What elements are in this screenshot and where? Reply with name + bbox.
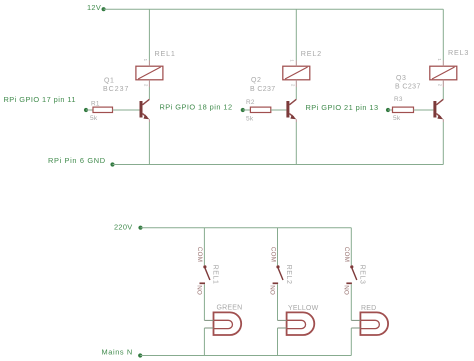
pin label NO (switch REL3) bbox=[343, 285, 350, 295]
svg-text:RED: RED bbox=[361, 305, 376, 312]
label GREEN bbox=[217, 305, 243, 312]
wire GND rail bbox=[113, 164, 444, 166]
net label RPi GPIO 18 pin 12 bbox=[160, 102, 233, 111]
wire 12V rail to REL2 coil bbox=[295, 9, 297, 60]
svg-text:B C237: B C237 bbox=[395, 83, 421, 90]
net label RPi Pin 6 GND bbox=[48, 156, 106, 165]
net label 220V bbox=[114, 222, 132, 231]
value label 5k (R1) bbox=[90, 115, 98, 122]
switch REL1 contact bbox=[200, 265, 210, 283]
svg-text:R3: R3 bbox=[394, 96, 403, 103]
wire R2 to Q2 base bbox=[271, 109, 287, 111]
net label RPi GPIO 17 pin 11 bbox=[4, 95, 76, 104]
wire lamp RED to Mains N rail bbox=[350, 328, 352, 356]
svg-text:REL3: REL3 bbox=[359, 265, 366, 285]
wire lamp GREEN to Mains N rail bbox=[203, 328, 205, 356]
lamp YELLOW bbox=[278, 312, 315, 335]
node 12V junction dot bbox=[102, 7, 106, 11]
label REL3 (switch) bbox=[359, 265, 366, 285]
node GPIO1 junction dot bbox=[84, 108, 88, 112]
value label 5k (R2) bbox=[246, 116, 254, 123]
svg-text:B C237: B C237 bbox=[250, 86, 275, 93]
label R3 bbox=[394, 96, 403, 103]
switch REL2 contact bbox=[273, 265, 283, 283]
pin 1 label REL3 bbox=[437, 58, 442, 61]
wire switch REL2 NO to lamp bbox=[277, 284, 279, 320]
svg-text:NO: NO bbox=[196, 285, 203, 295]
svg-text:R1: R1 bbox=[91, 100, 100, 107]
wire switch REL3 NO to lamp bbox=[350, 284, 352, 320]
label REL3 bbox=[448, 48, 469, 57]
svg-text:5k: 5k bbox=[246, 116, 254, 123]
lamp GREEN bbox=[204, 312, 241, 335]
label RED bbox=[361, 305, 376, 312]
svg-text:REL2: REL2 bbox=[285, 265, 292, 285]
net label Mains N bbox=[102, 347, 133, 356]
wire Mains N rail bbox=[140, 355, 351, 357]
wire 220V rail to switch REL1 COM bbox=[203, 228, 205, 266]
wire 12V rail to REL1 coil bbox=[148, 9, 150, 60]
pin label NO (switch REL2) bbox=[269, 285, 276, 295]
value label 5k (R3) bbox=[393, 115, 401, 122]
svg-text:BC237: BC237 bbox=[103, 86, 129, 93]
value label BC237 (Q2) bbox=[250, 86, 275, 93]
pin 2 label REL1 bbox=[144, 84, 149, 87]
wire 12V top rail bbox=[104, 8, 444, 10]
svg-text:RPi GPIO 21 pin 13: RPi GPIO 21 pin 13 bbox=[306, 103, 379, 112]
transistor Q1 bbox=[140, 99, 150, 122]
svg-text:Q2: Q2 bbox=[251, 77, 261, 84]
svg-text:RPi Pin 6 GND: RPi Pin 6 GND bbox=[48, 156, 106, 165]
wire Q2 emitter to GND rail bbox=[295, 122, 297, 165]
wire GPIO3 to R3 bbox=[388, 109, 393, 111]
label R2 bbox=[246, 99, 255, 106]
resistor R1 bbox=[93, 107, 113, 112]
pin 2 label REL2 bbox=[290, 84, 295, 87]
label YELLOW bbox=[288, 305, 319, 312]
relay REL2 coil bbox=[283, 61, 310, 88]
svg-text:Q1: Q1 bbox=[104, 77, 114, 84]
label R1 bbox=[91, 100, 100, 107]
svg-text:GREEN: GREEN bbox=[217, 305, 243, 312]
svg-text:NO: NO bbox=[269, 285, 276, 295]
wire 12V rail to REL3 coil bbox=[442, 9, 444, 60]
wire REL3 to Q3 collector bbox=[442, 87, 444, 99]
relay REL1 coil bbox=[136, 61, 163, 88]
wire Q3 emitter to GND rail bbox=[442, 122, 444, 165]
node 220V junction dot bbox=[138, 226, 142, 230]
relay REL3 coil bbox=[430, 61, 457, 88]
pin 2 label REL3 bbox=[438, 84, 443, 87]
svg-text:COM: COM bbox=[269, 247, 276, 262]
transistor Q2 bbox=[286, 99, 296, 122]
svg-text:5k: 5k bbox=[90, 115, 98, 122]
value label BC237 (Q1) bbox=[103, 86, 129, 93]
wire R3 to Q3 base bbox=[414, 109, 434, 111]
node GPIO3 junction dot bbox=[386, 108, 390, 112]
wire 220V rail to switch REL2 COM bbox=[277, 228, 279, 266]
pin 1 label REL2 bbox=[289, 59, 294, 62]
wire GPIO2 to R2 bbox=[243, 109, 251, 111]
node GND junction dot bbox=[110, 162, 114, 166]
transistor Q3 bbox=[433, 99, 443, 122]
svg-text:Q3: Q3 bbox=[396, 75, 406, 82]
svg-text:220V: 220V bbox=[114, 222, 132, 231]
svg-text:REL1: REL1 bbox=[155, 49, 176, 58]
resistor R3 bbox=[393, 107, 414, 112]
pin 1 label REL1 bbox=[143, 59, 148, 62]
label REL1 (switch) bbox=[212, 265, 219, 285]
wire R1 to Q1 base bbox=[113, 109, 140, 111]
svg-text:REL2: REL2 bbox=[301, 49, 322, 58]
label REL2 (switch) bbox=[285, 265, 292, 285]
svg-text:12V: 12V bbox=[87, 3, 101, 12]
node GPIO2 junction dot bbox=[241, 108, 245, 112]
svg-text:R2: R2 bbox=[246, 99, 255, 106]
pin label COM (switch REL3) bbox=[343, 247, 350, 262]
svg-text:COM: COM bbox=[343, 247, 350, 262]
svg-text:RPi GPIO 18 pin 12: RPi GPIO 18 pin 12 bbox=[160, 102, 233, 111]
wire REL1 to Q1 collector bbox=[148, 87, 150, 99]
label Q1 bbox=[104, 77, 114, 84]
wire lamp YELLOW to Mains N rail bbox=[277, 328, 279, 356]
value label BC237 (Q3) bbox=[395, 83, 421, 90]
label REL1 bbox=[155, 49, 176, 58]
wire Q1 emitter to GND rail bbox=[148, 122, 150, 165]
pin label NO (switch REL1) bbox=[196, 285, 203, 295]
wire 220V rail bbox=[141, 227, 352, 229]
svg-text:COM: COM bbox=[196, 247, 203, 262]
lamp RED bbox=[351, 312, 388, 335]
svg-text:Mains N: Mains N bbox=[102, 347, 133, 356]
label REL2 bbox=[301, 49, 322, 58]
wire REL2 to Q2 collector bbox=[295, 87, 297, 99]
svg-text:REL1: REL1 bbox=[212, 265, 219, 285]
pin label COM (switch REL1) bbox=[196, 247, 203, 262]
svg-text:YELLOW: YELLOW bbox=[288, 305, 319, 312]
label Q2 bbox=[251, 77, 261, 84]
label Q3 bbox=[396, 75, 406, 82]
wire GPIO1 to R1 bbox=[86, 109, 93, 111]
svg-text:RPi GPIO 17 pin 11: RPi GPIO 17 pin 11 bbox=[4, 95, 76, 104]
net label 12V bbox=[87, 3, 101, 12]
net label RPi GPIO 21 pin 13 bbox=[306, 103, 379, 112]
svg-text:REL3: REL3 bbox=[448, 48, 469, 57]
svg-text:NO: NO bbox=[343, 285, 350, 295]
resistor R2 bbox=[250, 107, 270, 112]
switch REL3 contact bbox=[346, 265, 356, 283]
wire 220V rail to switch REL3 COM bbox=[350, 228, 352, 266]
wire switch REL1 NO to lamp bbox=[203, 284, 205, 320]
node Mains N junction dot bbox=[138, 353, 142, 357]
pin label COM (switch REL2) bbox=[269, 247, 276, 262]
svg-text:5k: 5k bbox=[393, 115, 401, 122]
